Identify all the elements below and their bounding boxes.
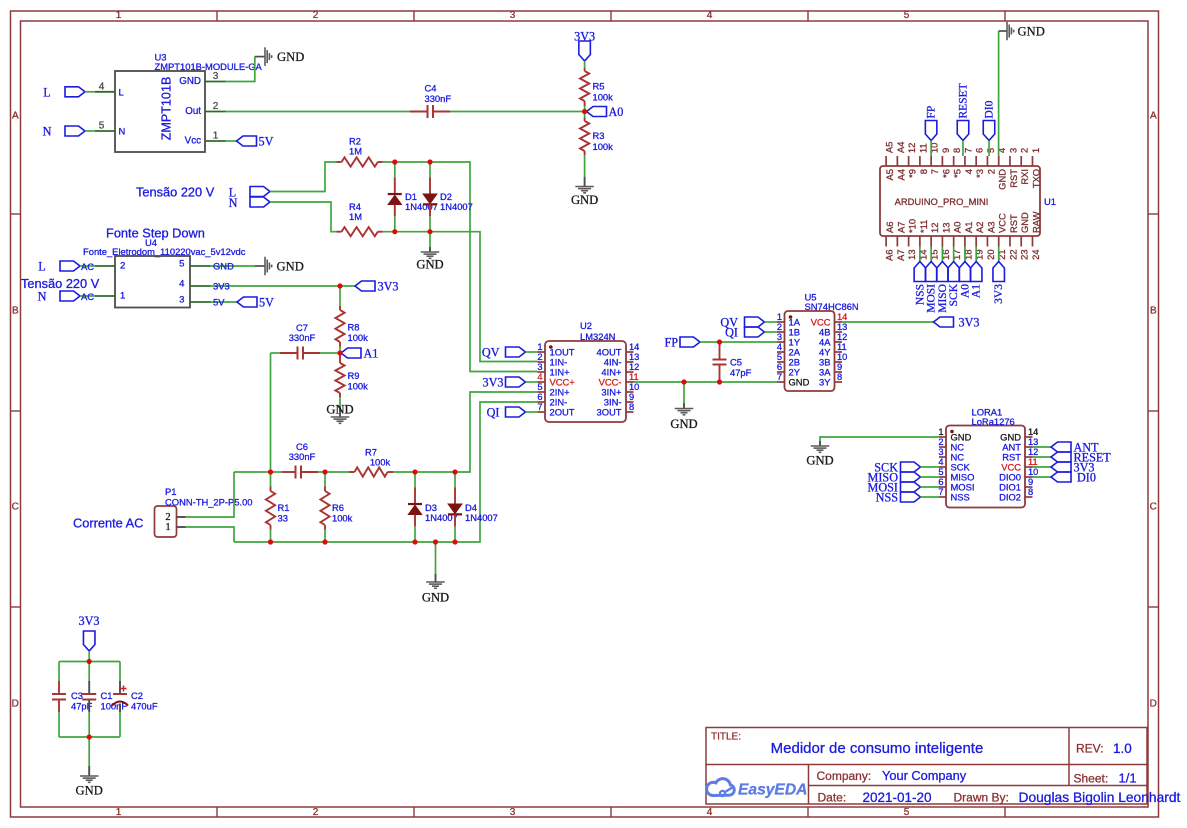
svg-text:A6: A6 bbox=[884, 222, 895, 233]
svg-text:14: 14 bbox=[1028, 427, 1038, 437]
svg-text:5: 5 bbox=[179, 259, 184, 270]
svg-text:3: 3 bbox=[938, 447, 943, 457]
svg-text:4: 4 bbox=[707, 807, 713, 818]
svg-text:8: 8 bbox=[837, 372, 842, 382]
svg-text:GND: GND bbox=[806, 454, 833, 468]
svg-text:A3: A3 bbox=[985, 222, 996, 233]
svg-text:9: 9 bbox=[1028, 477, 1033, 487]
svg-text:5V: 5V bbox=[259, 135, 274, 149]
svg-text:1: 1 bbox=[165, 522, 170, 533]
svg-text:AC: AC bbox=[81, 291, 94, 302]
svg-text:100k: 100k bbox=[348, 332, 369, 343]
svg-text:RESET: RESET bbox=[958, 83, 970, 118]
svg-text:GND: GND bbox=[326, 403, 353, 417]
svg-text:2: 2 bbox=[313, 10, 319, 21]
svg-text:EasyEDA: EasyEDA bbox=[738, 782, 807, 799]
svg-text:3V3: 3V3 bbox=[483, 376, 504, 390]
svg-text:1: 1 bbox=[938, 427, 943, 437]
svg-text:A: A bbox=[1150, 111, 1157, 122]
svg-text:8: 8 bbox=[1028, 487, 1033, 497]
svg-text:A0: A0 bbox=[959, 284, 971, 298]
svg-text:6: 6 bbox=[975, 148, 985, 153]
svg-text:MOSI: MOSI bbox=[926, 284, 938, 313]
svg-text:1: 1 bbox=[116, 807, 122, 818]
svg-text:3: 3 bbox=[510, 10, 516, 21]
svg-text:9: 9 bbox=[941, 148, 951, 153]
svg-text:QI: QI bbox=[725, 326, 738, 340]
svg-text:2: 2 bbox=[1020, 148, 1030, 153]
svg-text:Drawn By:: Drawn By: bbox=[954, 791, 1009, 805]
svg-text:*11: *11 bbox=[918, 220, 929, 233]
svg-text:5: 5 bbox=[986, 148, 996, 153]
svg-text:R9: R9 bbox=[348, 370, 360, 381]
svg-text:A5: A5 bbox=[884, 169, 895, 180]
svg-text:Your Company: Your Company bbox=[882, 768, 967, 783]
svg-text:RST: RST bbox=[1008, 214, 1019, 233]
svg-text:A0: A0 bbox=[609, 105, 624, 119]
svg-text:5: 5 bbox=[904, 807, 910, 818]
svg-text:1: 1 bbox=[116, 10, 122, 21]
svg-text:Douglas Bigolin Leonhardt: Douglas Bigolin Leonhardt bbox=[1019, 790, 1181, 805]
svg-text:4: 4 bbox=[707, 10, 713, 21]
svg-text:QI: QI bbox=[487, 406, 500, 420]
svg-text:A1: A1 bbox=[971, 284, 983, 298]
svg-text:RXI: RXI bbox=[1019, 169, 1030, 185]
svg-text:GND: GND bbox=[179, 76, 201, 87]
svg-text:2: 2 bbox=[985, 169, 996, 174]
svg-text:VCC: VCC bbox=[997, 213, 1008, 233]
svg-text:13: 13 bbox=[1028, 437, 1038, 447]
svg-text:5: 5 bbox=[938, 467, 943, 477]
svg-text:Tensão 220 V: Tensão 220 V bbox=[21, 276, 100, 291]
svg-text:A0: A0 bbox=[952, 222, 963, 233]
svg-text:4: 4 bbox=[777, 342, 782, 352]
svg-text:13: 13 bbox=[907, 250, 917, 260]
svg-text:470uF: 470uF bbox=[131, 701, 158, 712]
svg-text:GND: GND bbox=[670, 417, 697, 431]
svg-text:R3: R3 bbox=[593, 130, 605, 141]
svg-text:C5: C5 bbox=[730, 357, 742, 368]
svg-text:5: 5 bbox=[777, 352, 782, 362]
svg-text:11: 11 bbox=[918, 143, 928, 153]
svg-text:4: 4 bbox=[938, 457, 943, 467]
svg-text:AC: AC bbox=[81, 261, 94, 272]
svg-text:3V3: 3V3 bbox=[959, 316, 980, 330]
svg-text:24: 24 bbox=[1031, 250, 1041, 260]
svg-text:SN74HC86N: SN74HC86N bbox=[805, 301, 859, 312]
svg-text:SCK: SCK bbox=[948, 283, 960, 306]
svg-text:B: B bbox=[1150, 306, 1157, 317]
svg-text:12: 12 bbox=[929, 223, 940, 233]
svg-text:C3: C3 bbox=[71, 690, 83, 701]
svg-text:C: C bbox=[12, 502, 19, 513]
svg-text:9: 9 bbox=[629, 392, 634, 402]
svg-text:MISO: MISO bbox=[937, 284, 949, 313]
svg-text:N: N bbox=[119, 126, 126, 137]
svg-text:RST: RST bbox=[1008, 169, 1019, 188]
svg-text:100k: 100k bbox=[332, 513, 353, 524]
svg-text:GND: GND bbox=[277, 50, 304, 64]
svg-text:8: 8 bbox=[918, 169, 929, 174]
svg-text:2: 2 bbox=[938, 437, 943, 447]
svg-text:2OUT: 2OUT bbox=[550, 407, 575, 418]
svg-text:4: 4 bbox=[99, 82, 105, 93]
svg-text:11: 11 bbox=[837, 342, 847, 352]
svg-text:8: 8 bbox=[629, 402, 634, 412]
svg-text:NSS: NSS bbox=[951, 492, 970, 503]
svg-text:ARDUINO_PRO_MINI: ARDUINO_PRO_MINI bbox=[895, 196, 989, 207]
svg-text:100k: 100k bbox=[593, 141, 614, 152]
svg-text:A7: A7 bbox=[896, 250, 906, 261]
svg-text:DI0: DI0 bbox=[1077, 471, 1096, 485]
svg-text:5V: 5V bbox=[213, 297, 225, 308]
svg-text:NSS: NSS bbox=[914, 284, 926, 305]
svg-text:C4: C4 bbox=[425, 83, 437, 94]
svg-text:7: 7 bbox=[537, 402, 542, 412]
svg-text:DIO2: DIO2 bbox=[999, 492, 1021, 503]
svg-text:A6: A6 bbox=[885, 250, 895, 261]
svg-text:1N4007: 1N4007 bbox=[440, 201, 473, 212]
svg-text:33: 33 bbox=[278, 513, 288, 524]
svg-text:20: 20 bbox=[986, 250, 996, 260]
svg-text:14: 14 bbox=[837, 312, 847, 322]
svg-text:Corrente AC: Corrente AC bbox=[73, 516, 143, 531]
svg-text:C1: C1 bbox=[101, 690, 113, 701]
svg-text:Vcc: Vcc bbox=[185, 136, 201, 147]
svg-text:TXO: TXO bbox=[1030, 169, 1041, 188]
svg-text:1M: 1M bbox=[349, 146, 362, 157]
svg-text:LM324N: LM324N bbox=[580, 331, 615, 342]
svg-text:3V3: 3V3 bbox=[993, 284, 1005, 304]
svg-text:R8: R8 bbox=[348, 322, 360, 333]
svg-text:P1: P1 bbox=[165, 486, 176, 497]
svg-text:330nF: 330nF bbox=[289, 332, 316, 343]
svg-text:3V3: 3V3 bbox=[213, 281, 230, 292]
svg-text:GND: GND bbox=[571, 193, 598, 207]
svg-text:2021-01-20: 2021-01-20 bbox=[863, 790, 932, 805]
svg-text:A: A bbox=[12, 111, 19, 122]
svg-text:REV:: REV: bbox=[1076, 742, 1104, 756]
svg-text:U1: U1 bbox=[1044, 196, 1056, 207]
svg-text:Medidor de consumo inteligente: Medidor de consumo inteligente bbox=[771, 740, 984, 757]
svg-text:A4: A4 bbox=[896, 142, 906, 153]
svg-text:QV: QV bbox=[482, 346, 500, 360]
svg-text:4: 4 bbox=[179, 279, 185, 290]
svg-text:13: 13 bbox=[837, 322, 847, 332]
svg-text:3: 3 bbox=[179, 295, 184, 306]
svg-text:3: 3 bbox=[537, 362, 542, 372]
svg-text:3: 3 bbox=[1008, 148, 1018, 153]
svg-text:FP: FP bbox=[664, 336, 678, 350]
svg-text:6: 6 bbox=[777, 362, 782, 372]
svg-text:L: L bbox=[38, 260, 45, 274]
svg-text:11: 11 bbox=[1028, 457, 1038, 467]
svg-text:LoRa1276: LoRa1276 bbox=[972, 416, 1015, 427]
svg-text:*10: *10 bbox=[907, 219, 918, 233]
svg-text:GND: GND bbox=[1018, 25, 1045, 39]
svg-text:3V3: 3V3 bbox=[378, 280, 399, 294]
svg-text:3: 3 bbox=[510, 807, 516, 818]
svg-text:D: D bbox=[1150, 699, 1157, 710]
svg-text:Company:: Company: bbox=[817, 769, 872, 783]
svg-text:NSS: NSS bbox=[876, 491, 899, 505]
svg-text:Date:: Date: bbox=[818, 791, 847, 805]
svg-text:ZMPT101B-MODULE-GA: ZMPT101B-MODULE-GA bbox=[155, 61, 263, 72]
svg-text:GND: GND bbox=[422, 591, 449, 605]
svg-text:Out: Out bbox=[185, 106, 201, 117]
svg-text:23: 23 bbox=[1020, 250, 1030, 260]
svg-text:12: 12 bbox=[907, 143, 917, 153]
svg-text:A5: A5 bbox=[885, 142, 895, 153]
svg-text:2: 2 bbox=[213, 101, 219, 112]
svg-text:GND: GND bbox=[789, 377, 810, 388]
svg-text:5V: 5V bbox=[259, 296, 274, 310]
svg-text:L: L bbox=[43, 86, 50, 100]
svg-text:3: 3 bbox=[777, 332, 782, 342]
svg-text:12: 12 bbox=[1028, 447, 1038, 457]
svg-text:7: 7 bbox=[963, 148, 973, 153]
svg-text:4: 4 bbox=[963, 169, 974, 174]
svg-text:1N4007: 1N4007 bbox=[405, 201, 438, 212]
svg-text:TITLE:: TITLE: bbox=[711, 732, 741, 743]
svg-text:GND: GND bbox=[416, 258, 443, 272]
svg-text:D: D bbox=[12, 699, 19, 710]
svg-text:R5: R5 bbox=[593, 81, 605, 92]
svg-text:A1: A1 bbox=[963, 222, 974, 233]
svg-text:FP: FP bbox=[926, 106, 938, 119]
svg-text:4: 4 bbox=[537, 372, 542, 382]
svg-text:100k: 100k bbox=[593, 92, 614, 103]
svg-text:1: 1 bbox=[777, 312, 782, 322]
svg-text:13: 13 bbox=[629, 352, 639, 362]
svg-text:1.0: 1.0 bbox=[1113, 741, 1132, 756]
svg-text:GND: GND bbox=[997, 169, 1008, 190]
svg-text:1: 1 bbox=[1031, 148, 1041, 153]
svg-text:B: B bbox=[12, 306, 19, 317]
svg-text:8: 8 bbox=[952, 148, 962, 153]
svg-text:Tensão 220 V: Tensão 220 V bbox=[136, 185, 215, 200]
svg-text:6: 6 bbox=[537, 392, 542, 402]
svg-text:RAW: RAW bbox=[1030, 211, 1041, 233]
svg-text:7: 7 bbox=[777, 372, 782, 382]
svg-text:1M: 1M bbox=[349, 211, 362, 222]
svg-text:*5: *5 bbox=[952, 169, 963, 178]
svg-text:R6: R6 bbox=[332, 502, 344, 513]
svg-text:10: 10 bbox=[1028, 467, 1038, 477]
svg-text:A2: A2 bbox=[974, 222, 985, 233]
svg-text:330nF: 330nF bbox=[289, 451, 316, 462]
svg-text:Sheet:: Sheet: bbox=[1074, 772, 1109, 786]
svg-text:R1: R1 bbox=[278, 502, 290, 513]
svg-text:*9: *9 bbox=[907, 169, 918, 178]
svg-text:N: N bbox=[38, 290, 47, 304]
svg-text:14: 14 bbox=[629, 342, 639, 352]
svg-text:330nF: 330nF bbox=[425, 93, 452, 104]
svg-text:U2: U2 bbox=[580, 320, 592, 331]
svg-text:3V3: 3V3 bbox=[574, 30, 595, 44]
svg-text:1/1: 1/1 bbox=[1119, 771, 1137, 786]
svg-text:7: 7 bbox=[938, 487, 943, 497]
svg-text:5: 5 bbox=[537, 382, 542, 392]
svg-text:100k: 100k bbox=[370, 457, 391, 468]
svg-text:47pF: 47pF bbox=[730, 367, 752, 378]
svg-text:12: 12 bbox=[629, 362, 639, 372]
svg-text:2: 2 bbox=[537, 352, 542, 362]
svg-text:1: 1 bbox=[537, 342, 542, 352]
svg-text:11: 11 bbox=[629, 372, 639, 382]
svg-text:GND: GND bbox=[76, 784, 103, 798]
svg-text:1: 1 bbox=[120, 291, 125, 302]
svg-text:DI0: DI0 bbox=[984, 100, 996, 118]
svg-text:3OUT: 3OUT bbox=[596, 407, 621, 418]
svg-text:*6: *6 bbox=[940, 169, 951, 178]
svg-text:12: 12 bbox=[837, 332, 847, 342]
svg-text:A1: A1 bbox=[364, 347, 379, 361]
svg-text:N: N bbox=[43, 125, 52, 139]
svg-text:*3: *3 bbox=[974, 169, 985, 178]
svg-text:L: L bbox=[119, 86, 124, 97]
svg-text:22: 22 bbox=[1008, 250, 1018, 260]
svg-text:9: 9 bbox=[837, 362, 842, 372]
svg-text:3Y: 3Y bbox=[819, 377, 831, 388]
svg-text:1N4007: 1N4007 bbox=[465, 512, 498, 523]
svg-text:2: 2 bbox=[777, 322, 782, 332]
svg-text:2: 2 bbox=[120, 261, 125, 272]
svg-text:GND: GND bbox=[213, 261, 234, 272]
svg-text:6: 6 bbox=[938, 477, 943, 487]
svg-text:C2: C2 bbox=[131, 690, 143, 701]
svg-text:7: 7 bbox=[929, 169, 940, 174]
svg-text:GND: GND bbox=[277, 260, 304, 274]
svg-text:5: 5 bbox=[904, 10, 910, 21]
svg-text:3: 3 bbox=[213, 71, 219, 82]
svg-text:2: 2 bbox=[313, 807, 319, 818]
svg-text:3V3: 3V3 bbox=[79, 614, 100, 628]
svg-text:A4: A4 bbox=[895, 169, 906, 180]
svg-text:C: C bbox=[1150, 502, 1157, 513]
svg-text:A7: A7 bbox=[895, 222, 906, 233]
svg-text:1: 1 bbox=[213, 131, 219, 142]
svg-text:10: 10 bbox=[629, 382, 639, 392]
svg-text:100k: 100k bbox=[348, 381, 369, 392]
svg-text:GND: GND bbox=[1019, 212, 1030, 233]
svg-text:N: N bbox=[229, 196, 238, 210]
svg-text:CONN-TH_2P-P5.00: CONN-TH_2P-P5.00 bbox=[165, 497, 253, 508]
svg-text:5: 5 bbox=[99, 121, 105, 132]
svg-text:10: 10 bbox=[837, 352, 847, 362]
svg-text:13: 13 bbox=[940, 223, 951, 233]
svg-text:ZMPT101B: ZMPT101B bbox=[160, 77, 174, 141]
